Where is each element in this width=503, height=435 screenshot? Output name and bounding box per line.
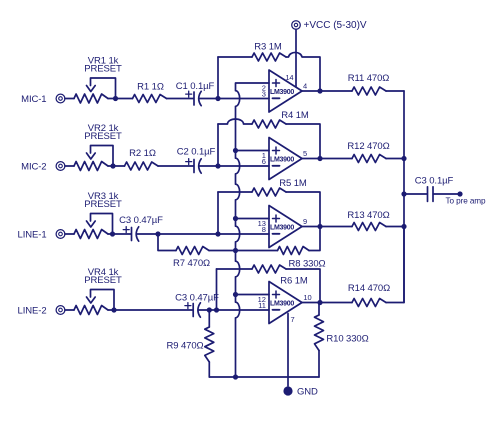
wire R10 to rail: [318, 351, 320, 378]
svg-text:R1 1Ω: R1 1Ω: [137, 82, 164, 93]
svg-text:LINE-1: LINE-1: [18, 230, 47, 241]
wire node to R6 riser node: [209, 309, 216, 311]
svg-text:R11 470Ω: R11 470Ω: [348, 73, 390, 84]
wire R14 to right bus: [386, 227, 404, 303]
node R13 bus junction: [401, 224, 406, 229]
preset pot VR3 1k: [74, 191, 122, 239]
capacitor C2 ch2 (polarized): [177, 147, 216, 174]
wire feedback riser ch4: [217, 269, 253, 310]
resistor R2 1Ω: [125, 148, 159, 170]
node op4 output junction: [317, 300, 322, 305]
svg-text:R7 470Ω: R7 470Ω: [173, 258, 210, 269]
svg-text:LM3900: LM3900: [270, 225, 294, 232]
svg-text:8: 8: [262, 225, 266, 234]
node C1/R3 junction: [215, 96, 220, 101]
svg-text:R8 330Ω: R8 330Ω: [288, 259, 325, 270]
svg-text:3: 3: [262, 90, 266, 99]
node bus/op4+: [233, 292, 238, 297]
wire C3 to node: [198, 309, 209, 311]
wire node to op4 pin 11: [217, 309, 270, 311]
preset pot VR1 1k: [74, 56, 122, 104]
node VR4 wiper junction: [111, 307, 116, 312]
wire node to R5 riser node: [158, 233, 218, 235]
wire R2 to C2: [158, 165, 193, 167]
wire feedback riser ch3: [218, 192, 252, 234]
svg-text:R2 1Ω: R2 1Ω: [129, 148, 156, 159]
input terminal MIC-1: [21, 94, 65, 105]
input terminal LINE-2: [18, 306, 65, 317]
node R12 bus junction: [401, 156, 406, 161]
resistor R6 1M: [252, 265, 308, 287]
svg-text:C3 0.47µF: C3 0.47µF: [119, 215, 163, 226]
wire node to op1 pin 3: [218, 98, 269, 100]
wire bus to C3 output: [404, 193, 427, 195]
op-amp U1b LM3900: [262, 138, 307, 180]
output bus: [403, 91, 405, 303]
svg-text:PRESET: PRESET: [84, 131, 122, 142]
wire LINE-1 to VR3: [65, 233, 74, 235]
op-amp U1c LM3900: [258, 206, 307, 248]
wire C2 to node: [199, 165, 218, 167]
wire R9 to rail: [208, 362, 210, 377]
capacitor C1 ch1 (polarized): [176, 81, 215, 106]
svg-text:R9 470Ω: R9 470Ω: [166, 341, 203, 352]
node R9 junction: [207, 307, 212, 312]
wire LINE-2 to VR4: [65, 309, 74, 311]
resistor R5 1M: [252, 178, 307, 196]
svg-text:LM3900: LM3900: [270, 157, 294, 164]
wire op4 pin 7 to ground: [287, 314, 289, 387]
op-amp U1a LM3900: [262, 70, 307, 112]
wire feedback riser ch2: [218, 119, 252, 166]
svg-text:R13 470Ω: R13 470Ω: [347, 210, 389, 221]
capacitor C3 ch4 (polarized): [175, 293, 219, 318]
wire node to op3 pin 8: [218, 233, 269, 235]
input terminal MIC-2: [21, 162, 65, 173]
wire op2 output: [302, 158, 352, 160]
svg-text:C3 0.47µF: C3 0.47µF: [175, 293, 219, 304]
resistor R7 470Ω: [173, 247, 210, 270]
wire R13 to right bus: [386, 226, 404, 228]
wire R1 to C1: [167, 98, 194, 100]
wire bus to R8: [236, 250, 278, 252]
svg-text:11: 11: [258, 301, 266, 310]
resistor R11 470Ω: [348, 73, 390, 95]
wire bus to op2 + input: [236, 150, 270, 152]
node R6 riser junction: [214, 307, 219, 312]
svg-text:6: 6: [262, 157, 266, 166]
wire feedback riser ch1: [218, 57, 252, 99]
node op3 output junction: [317, 224, 322, 229]
wire VR3 to cap: [113, 233, 131, 235]
svg-text:10: 10: [303, 293, 311, 302]
wire op3 output: [302, 226, 352, 228]
resistor R13 470Ω: [347, 210, 389, 231]
svg-text:MIC-2: MIC-2: [21, 162, 46, 173]
resistor R4 1M: [252, 110, 309, 128]
svg-text:C1 0.1µF: C1 0.1µF: [176, 81, 215, 92]
svg-text:R3 1M: R3 1M: [254, 42, 282, 53]
node op2 output junction: [317, 156, 322, 161]
svg-text:R10 330Ω: R10 330Ω: [326, 334, 368, 345]
wire LINE-1 node down to R7: [158, 234, 176, 251]
wire R12 to right bus: [386, 158, 404, 160]
node VR2 wiper junction: [110, 163, 115, 168]
resistor R10 330Ω: [315, 315, 369, 351]
wire op4 output: [302, 302, 352, 304]
resistor R9 470Ω: [166, 327, 213, 362]
node to-pre-amp terminal: [446, 191, 487, 205]
node C3 output junction: [401, 191, 406, 196]
svg-text:7: 7: [290, 315, 294, 324]
wire R7 to bus: [209, 250, 236, 252]
wire C3 to node: [137, 233, 158, 235]
svg-text:C2 0.1µF: C2 0.1µF: [177, 147, 216, 158]
svg-text:LM3900: LM3900: [270, 301, 294, 308]
svg-text:LM3900: LM3900: [270, 89, 294, 96]
node C3/R7 junction: [155, 231, 160, 236]
wire MIC-2 to VR2: [65, 165, 74, 167]
wire R5 to output: [286, 192, 320, 227]
svg-text:5: 5: [303, 149, 307, 158]
wire R4 to output: [286, 124, 320, 159]
resistor R1 1Ω: [133, 82, 167, 103]
node R5 riser junction: [215, 231, 220, 236]
wire VR2 to R2: [113, 165, 125, 167]
wire C1 to node: [199, 98, 218, 100]
svg-text:PRESET: PRESET: [84, 199, 122, 210]
wire LINE-2 node down to R9: [208, 310, 210, 327]
resistor R14 470Ω: [348, 283, 390, 307]
wire op4 output down to R10: [318, 303, 320, 316]
resistor R3 1M: [252, 42, 286, 62]
op-amp U1d LM3900: [258, 282, 312, 325]
node bus bottom junction: [233, 374, 238, 379]
capacitor C3 0.1µF output: [415, 176, 454, 202]
mixing bus (+ input bus) with hops: [236, 83, 270, 377]
node VR3 wiper junction: [110, 231, 115, 236]
wire R8 to op3 output: [309, 227, 320, 251]
svg-text:MIC-1: MIC-1: [21, 94, 46, 105]
wire MIC-1 to VR1: [65, 98, 74, 100]
svg-text:9: 9: [303, 217, 307, 226]
node bus/R7R8 junction: [233, 248, 238, 253]
resistor R8 330Ω: [278, 247, 326, 270]
svg-text:PRESET: PRESET: [84, 64, 122, 75]
wire bus to op4 + input: [236, 294, 270, 296]
svg-text:4: 4: [303, 82, 307, 91]
svg-text:R5 1M: R5 1M: [279, 178, 307, 189]
wire VR4 to cap: [114, 309, 193, 311]
wire VCC to pin 14: [295, 30, 297, 88]
svg-text:R14 470Ω: R14 470Ω: [348, 283, 390, 294]
svg-text:R4 1M: R4 1M: [281, 110, 309, 121]
power terminal +VCC: [292, 20, 367, 31]
wire C3 to pre amp: [433, 193, 458, 195]
wire R11 to right bus: [386, 90, 404, 92]
node bus/op2+: [233, 148, 238, 153]
ground rail: [209, 376, 319, 378]
ground GND: [283, 386, 318, 397]
svg-text:LINE-2: LINE-2: [18, 306, 47, 317]
svg-text:PRESET: PRESET: [84, 275, 122, 286]
svg-text:To pre amp: To pre amp: [446, 197, 487, 206]
svg-text:14: 14: [285, 73, 293, 82]
node C2/R4 junction: [215, 163, 220, 168]
svg-text:C3 0.1µF: C3 0.1µF: [415, 176, 454, 187]
wire op1 output: [302, 90, 352, 92]
svg-text:R6 1M: R6 1M: [280, 276, 308, 287]
preset pot VR2 1k: [74, 123, 122, 171]
wire R6 to output: [286, 269, 320, 303]
wire R3 to output (hop over VCC line): [286, 52, 320, 91]
node op1 output junction: [317, 88, 322, 93]
svg-text:R12 470Ω: R12 470Ω: [347, 141, 389, 152]
svg-text:+VCC (5-30)V: +VCC (5-30)V: [304, 20, 367, 31]
wire node to op2 pin 6: [218, 165, 269, 167]
svg-text:GND: GND: [297, 387, 318, 398]
wire VR1 to R1: [116, 98, 133, 100]
wire bus to op3 + input: [236, 218, 270, 220]
preset pot VR4 1k: [74, 267, 122, 315]
node VR1 wiper junction: [113, 96, 118, 101]
input terminal LINE-1: [18, 230, 65, 241]
capacitor C3 ch3 (polarized): [119, 215, 163, 241]
resistor R12 470Ω: [347, 141, 389, 163]
node bus/op3+: [233, 216, 238, 221]
